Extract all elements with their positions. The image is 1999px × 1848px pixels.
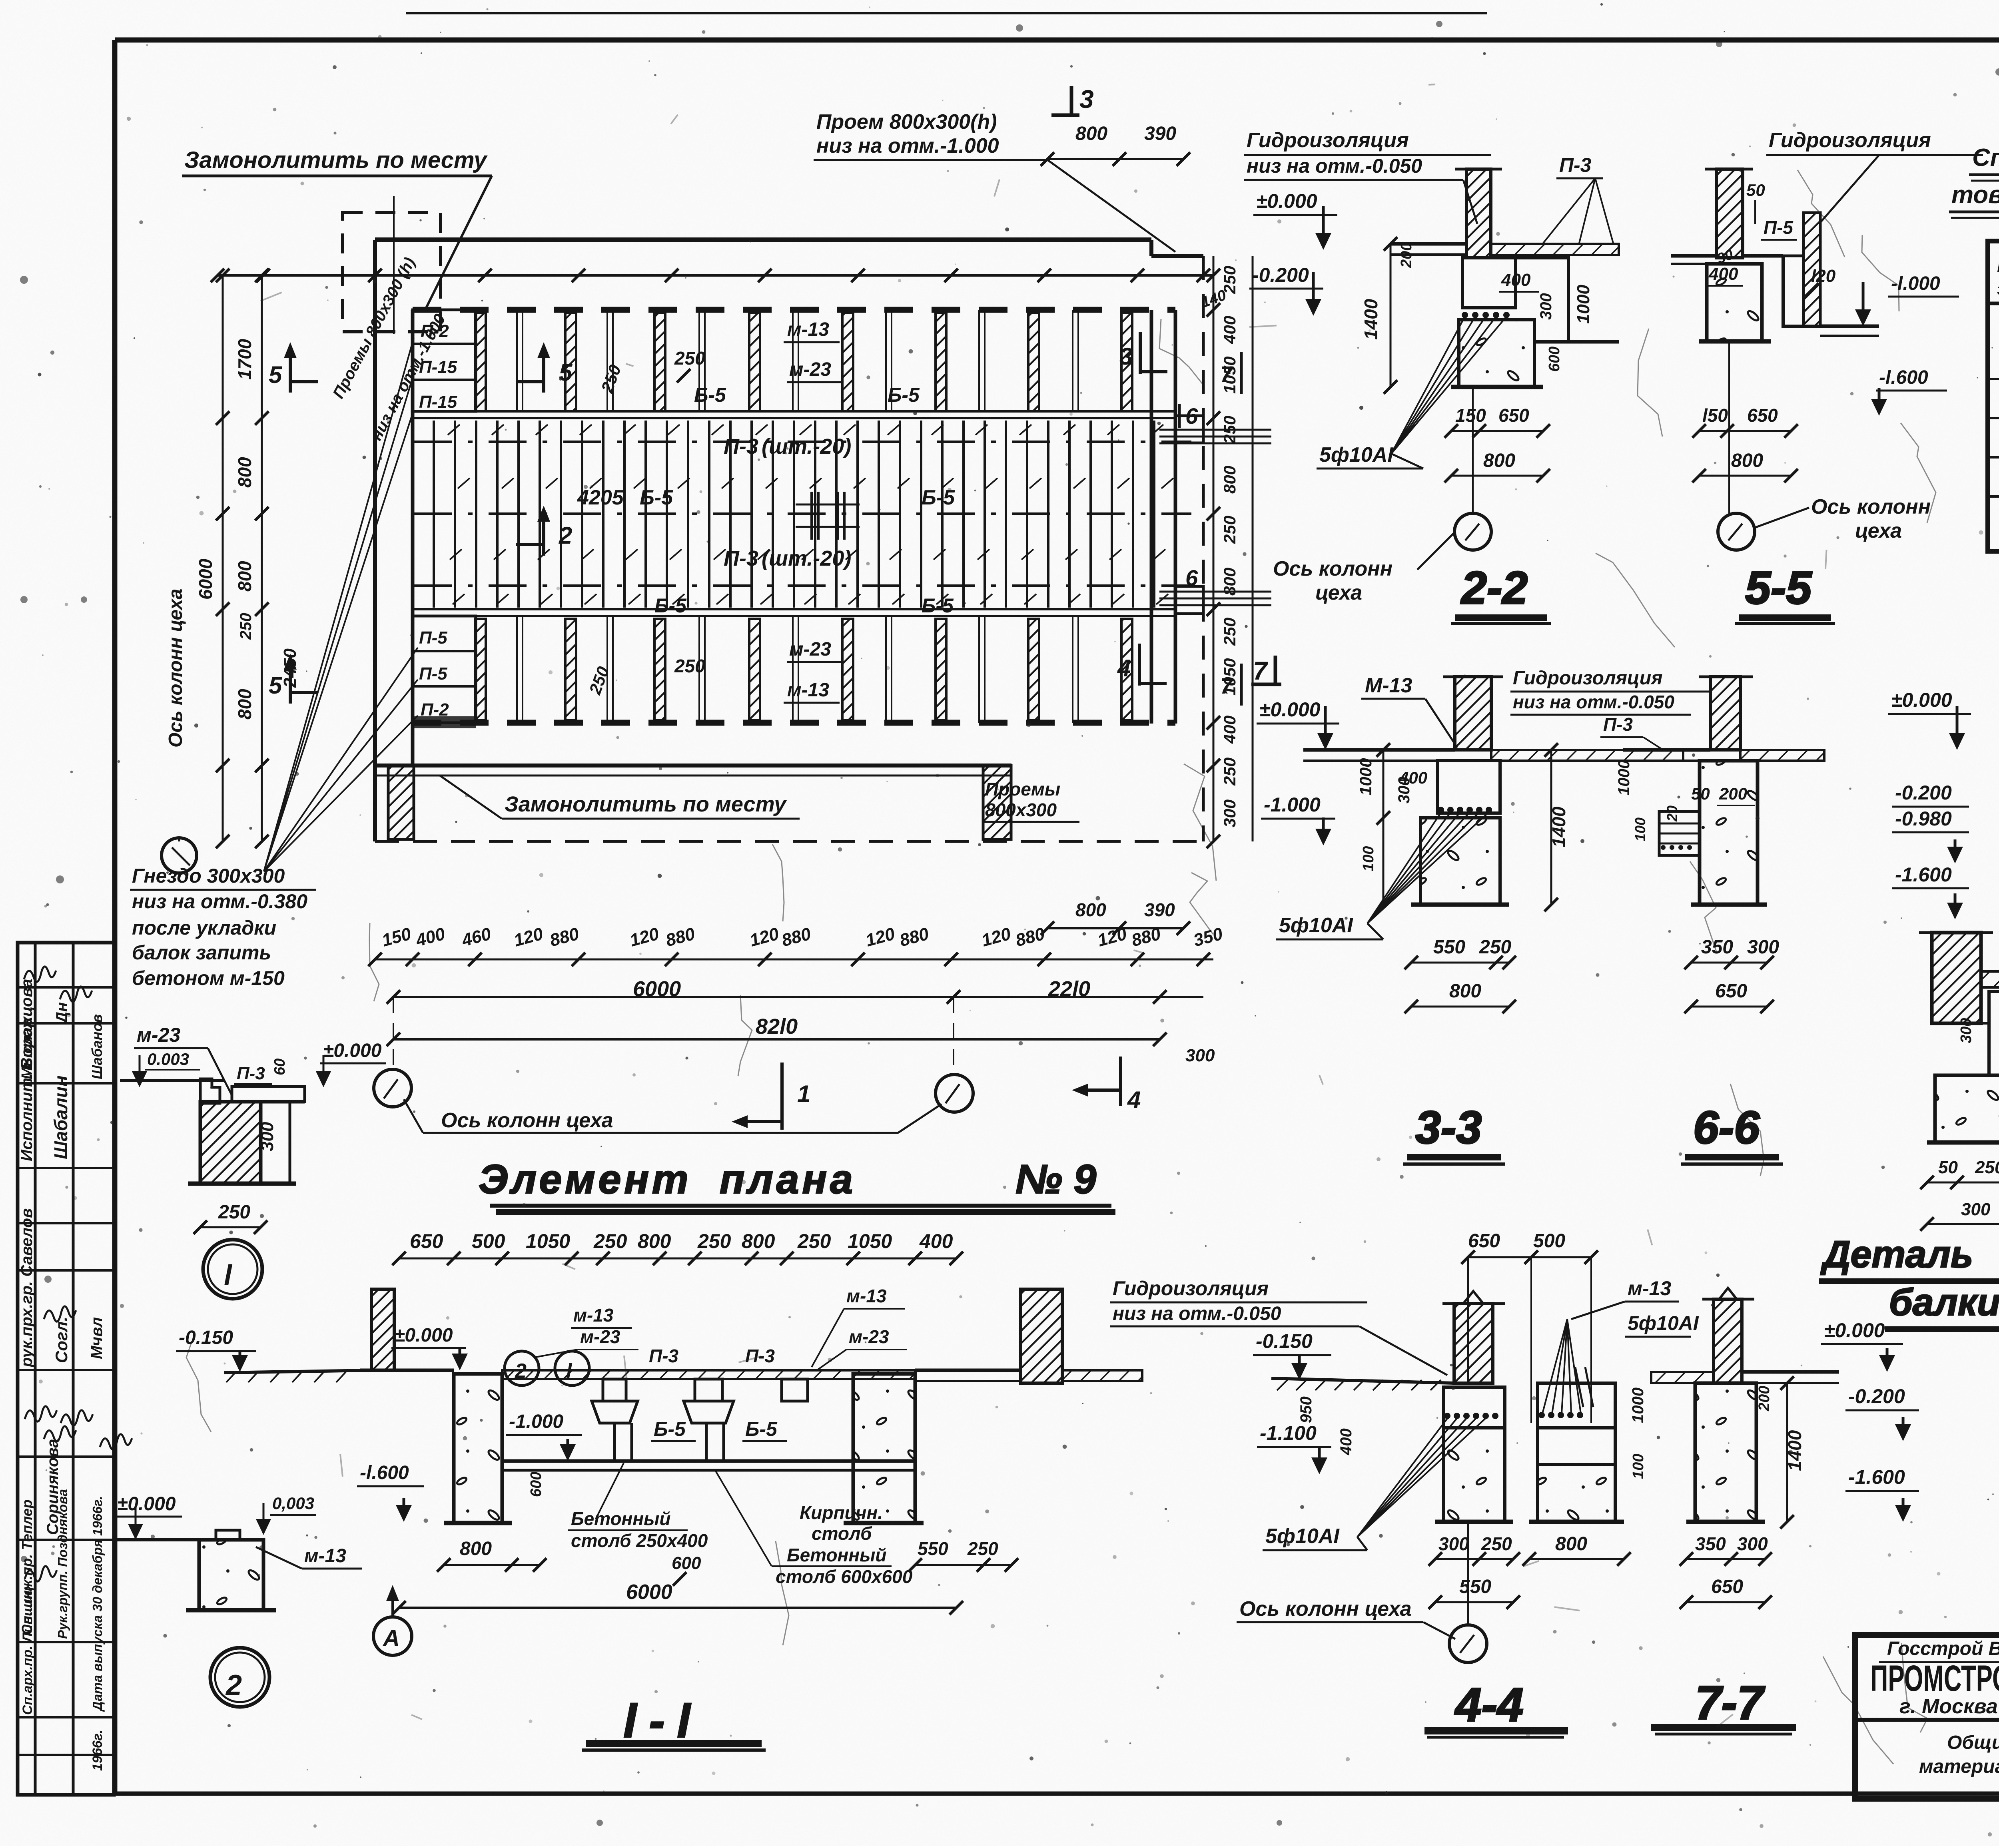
axis circles below plan bbox=[374, 1069, 411, 1107]
3-3 floors bbox=[1303, 748, 1455, 752]
2-2 dims bbox=[1390, 244, 1392, 387]
4-4 rebar fan left bbox=[1357, 1417, 1448, 1537]
1-1 pit walls bbox=[454, 1374, 502, 1523]
plan: bottom band cell partitions bbox=[516, 616, 518, 723]
4-4 mid break lines bbox=[1575, 1367, 1583, 1407]
paper edge top bbox=[406, 12, 1487, 14]
2-2 rebar fan bbox=[1391, 317, 1465, 454]
plan: section 6 cut lines right bbox=[1159, 429, 1271, 431]
title block frame bbox=[1855, 1635, 1999, 1799]
axis circle 1 bbox=[203, 1240, 262, 1299]
4-4 column bbox=[1454, 1304, 1493, 1383]
detail M-13 drawing bbox=[199, 1540, 263, 1610]
beam slab P-3 bbox=[1981, 971, 1999, 987]
dashed opening box top-left bbox=[343, 213, 441, 332]
plan: left wall bbox=[373, 240, 377, 841]
circle A bbox=[373, 1617, 412, 1655]
1-1 beams B-5 bbox=[592, 1401, 638, 1423]
plan: top outer edge bbox=[375, 237, 1151, 242]
plan: bottom band hatched columns bbox=[475, 619, 486, 720]
plan: mid splice detail bbox=[810, 492, 813, 540]
1-1 pit slab bbox=[502, 1459, 915, 1463]
section 6-6 bbox=[1710, 677, 1740, 750]
5-5 foundation bbox=[1707, 264, 1762, 341]
beam pocket bbox=[1989, 991, 1999, 1075]
axis circle 2 bbox=[210, 1648, 269, 1707]
4-4 foundation right bbox=[1538, 1383, 1615, 1428]
plan: top band cell partitions bbox=[516, 310, 518, 411]
5-5 column bbox=[1716, 169, 1743, 258]
plan: dimension line y689 bbox=[217, 274, 1213, 277]
plan: mid zone hatch ticks bbox=[448, 425, 460, 435]
border frame bbox=[115, 38, 1999, 43]
plan: bottom exterior wall bbox=[375, 764, 1011, 768]
stamp column grid bbox=[18, 943, 114, 1795]
scan texture overlay bbox=[0, 0, 0, 0]
5-5 floors bbox=[1671, 254, 1716, 258]
section 7-7 bbox=[1714, 1299, 1742, 1383]
detail beam install bbox=[1932, 933, 1981, 1023]
detail M-23 drawing bbox=[200, 1079, 220, 1103]
4-4 foundation left bbox=[1444, 1387, 1505, 1428]
5-5 axis bbox=[1728, 341, 1730, 513]
1-1 left wall column bbox=[371, 1289, 394, 1370]
4-4 ground line bbox=[1271, 1378, 1454, 1383]
plan: mid zone dashed axes bbox=[414, 441, 1191, 443]
plan: top band left stack bbox=[413, 310, 476, 411]
spec table grid bbox=[1988, 241, 1999, 551]
plan: top band bottom beam lines bbox=[413, 410, 1175, 413]
7-7 foundation bbox=[1695, 1383, 1756, 1522]
1-1 ground floor bbox=[360, 1369, 454, 1372]
plan: mid zone joists bbox=[433, 421, 435, 608]
2-2 axis bbox=[1472, 387, 1474, 513]
1-1 circles 2 and 1 bbox=[505, 1351, 539, 1386]
2-2 column bbox=[1466, 169, 1491, 258]
noise bbox=[898, 279, 901, 282]
3-3 rebar fan bbox=[1367, 811, 1442, 923]
section mark 4 bottom bbox=[1119, 1057, 1122, 1106]
stamp signatures bbox=[24, 967, 56, 982]
plan: bottom band top beam lines bbox=[413, 608, 1175, 610]
section mark 3 top bbox=[1070, 86, 1073, 116]
plan: right bracket details bbox=[1175, 416, 1203, 443]
plan: bottom dashed outline bbox=[375, 840, 1203, 843]
plan: bottom band left stack bbox=[413, 616, 476, 723]
1-1 right wall column bbox=[1021, 1289, 1062, 1383]
6-6 floors bbox=[1623, 748, 1710, 752]
3-3 foundation bbox=[1438, 761, 1500, 813]
plan: top band dashed edge bbox=[413, 307, 1175, 313]
2-2 floor slabs bbox=[1391, 242, 1466, 246]
section 3-3 bbox=[1274, 656, 1277, 686]
plan: top band hatched columns bbox=[475, 313, 486, 411]
3-3 dims bbox=[1383, 750, 1385, 905]
3-3 column bbox=[1455, 677, 1491, 750]
6-6 foundation bbox=[1700, 761, 1758, 905]
gnezdo leader fan bbox=[264, 338, 414, 871]
section mark 1 bottom bbox=[780, 1063, 784, 1130]
plan: bottom band dashed edge bbox=[413, 720, 1175, 726]
5-5 right plate bbox=[1803, 213, 1820, 326]
plan left dims bbox=[222, 275, 224, 841]
7-7 floors bbox=[1651, 1372, 1714, 1383]
plan right dims bbox=[1213, 256, 1215, 841]
crack squiggles bbox=[738, 995, 752, 1076]
1-1 P-3 slab bbox=[502, 1370, 915, 1379]
2-2 foundation bbox=[1462, 258, 1516, 308]
plan: right wall bbox=[1150, 310, 1153, 724]
1-1 support blocks bbox=[603, 1379, 626, 1401]
6-6 left slab bbox=[1659, 811, 1700, 855]
